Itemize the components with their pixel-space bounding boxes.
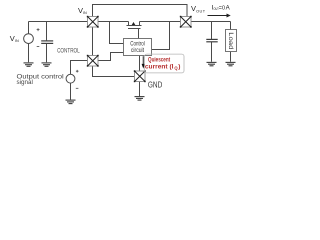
svg-text:current (I: current (I [145, 64, 174, 71]
svg-text:Quiescent: Quiescent [148, 56, 171, 63]
svg-text:GND: GND [148, 80, 163, 89]
svg-text:OUT: OUT [196, 9, 206, 13]
svg-text:IN: IN [15, 39, 19, 43]
svg-text:CONTROL: CONTROL [57, 47, 80, 54]
svg-text:=0: =0 [219, 5, 225, 11]
svg-text:IN: IN [83, 11, 87, 15]
svg-text:): ) [178, 64, 180, 71]
svg-text:Load: Load [227, 32, 234, 50]
svg-text:circuit: circuit [131, 47, 144, 54]
svg-text:signal: signal [17, 79, 33, 86]
